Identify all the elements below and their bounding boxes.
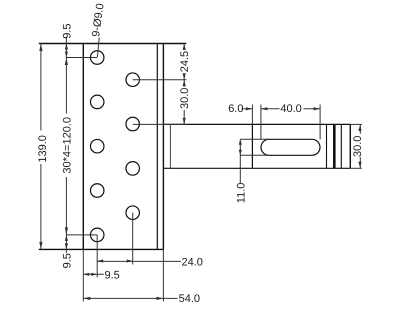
- dim 24.5 line: [183, 44, 185, 49]
- svg-text:30*4=120.0: 30*4=120.0: [62, 117, 74, 174]
- arm step line: [251, 124, 253, 168]
- leader to hole L1: [66, 57, 97, 59]
- hole L1: [90, 51, 104, 65]
- label 9-Ø9.0 leader: [97, 38, 99, 58]
- plate top edge: [39, 43, 187, 45]
- plate bottom edge: [39, 248, 164, 250]
- dim 6.0: [242, 108, 253, 110]
- svg-text:9.5: 9.5: [61, 253, 73, 268]
- dim 54.0 line: [83, 297, 163, 299]
- svg-text:24.5: 24.5: [179, 51, 191, 72]
- hole R2: [126, 117, 140, 131]
- ext step up: [251, 105, 253, 125]
- dim 9.5 bottom-left line: [65, 235, 67, 253]
- dim 30*4=120.0 line: [65, 58, 67, 114]
- dim 30.0 arm ext lines: [350, 123, 362, 125]
- dim 11.0 line: [239, 139, 241, 183]
- dim 24.0 ext hole R4 down: [132, 213, 134, 265]
- leader hole R2: [133, 123, 187, 125]
- svg-text:9.5: 9.5: [61, 24, 73, 39]
- dim 9.5 top line: [65, 37, 67, 58]
- dim 11.0 ext lines: [240, 138, 270, 140]
- svg-text:24.0: 24.0: [182, 256, 203, 268]
- arm right edge: [349, 124, 351, 168]
- arm end line 3: [340, 124, 342, 168]
- svg-text:11.0: 11.0: [235, 183, 247, 204]
- hole L2: [90, 95, 104, 109]
- svg-text:6.0: 6.0: [228, 103, 243, 115]
- hole R4: [126, 206, 140, 220]
- dim 30.0 plate line: [183, 80, 185, 87]
- hole L5: [90, 228, 104, 242]
- plate inner bend line: [156, 44, 158, 250]
- dim 54.0 ext right edge down: [162, 249, 164, 301]
- arm end line 2 (thick): [333, 124, 336, 168]
- ext plate left edge down: [82, 249, 84, 301]
- arm top edge: [163, 123, 350, 125]
- svg-text:54.0: 54.0: [179, 293, 200, 305]
- arm left inner line: [169, 124, 171, 168]
- leader to hole L5: [66, 234, 97, 236]
- svg-text:9.5: 9.5: [105, 270, 120, 282]
- hole R3: [126, 162, 140, 176]
- svg-text:139.0: 139.0: [37, 135, 49, 163]
- arm bottom edge: [163, 167, 350, 169]
- arm end line 1: [326, 124, 328, 168]
- dim 9.5 bottom horizontal: [83, 273, 104, 275]
- hole L3: [90, 139, 104, 153]
- dim 139.0 line: [40, 44, 42, 131]
- hole L4: [90, 184, 104, 198]
- svg-text:30.0: 30.0: [352, 136, 364, 157]
- ext slot right up: [319, 105, 321, 140]
- svg-text:9-Ø9.0: 9-Ø9.0: [90, 3, 107, 38]
- ext slot left up: [260, 105, 262, 140]
- svg-text:30.0: 30.0: [179, 88, 191, 109]
- hole R1: [126, 73, 140, 87]
- dim 30.0 arm line: [359, 124, 361, 133]
- slot: [261, 139, 320, 155]
- svg-text:40.0: 40.0: [280, 103, 301, 115]
- dim 24.0 line: [97, 260, 133, 262]
- plate right edge: [162, 44, 164, 250]
- ext hole column down: [96, 235, 98, 278]
- dim 40.0: [261, 108, 280, 110]
- plate left edge: [82, 44, 84, 250]
- leader hole R1: [133, 79, 187, 81]
